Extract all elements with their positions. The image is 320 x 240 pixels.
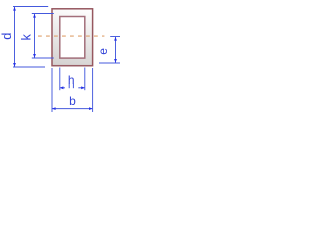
b left arrow bbox=[52, 107, 56, 110]
h dimension line left segment bbox=[60, 87, 65, 89]
d top arrow bbox=[13, 7, 16, 11]
outer rectangle bbox=[52, 9, 93, 66]
centerline bbox=[38, 35, 104, 37]
b dimension line bbox=[52, 108, 92, 110]
d dimension line bbox=[14, 7, 16, 67]
inner rectangle bbox=[60, 17, 85, 59]
e bottom arrow bbox=[114, 59, 117, 63]
k dimension line bbox=[34, 14, 36, 58]
h label riser left bbox=[68, 84, 70, 88]
outer bottom edge accent bbox=[53, 65, 93, 67]
e dimension line bbox=[115, 37, 117, 63]
h dimension line right segment bbox=[78, 87, 84, 89]
e top extension line bbox=[110, 36, 120, 38]
e bottom extension line bbox=[99, 62, 120, 64]
outer-right extension line bbox=[92, 68, 94, 112]
k bottom extension line bbox=[32, 57, 54, 59]
b right arrow bbox=[89, 107, 93, 110]
k top arrow bbox=[33, 14, 36, 18]
k bottom arrow bbox=[33, 54, 36, 58]
svg-text:h: h bbox=[68, 73, 75, 87]
d bottom extension line bbox=[13, 66, 45, 68]
d top extension line bbox=[13, 6, 48, 8]
svg-text:b: b bbox=[69, 94, 76, 108]
svg-text:k: k bbox=[20, 34, 34, 41]
h right arrow bbox=[81, 86, 85, 89]
k top extension line bbox=[32, 13, 54, 15]
e top arrow bbox=[114, 37, 117, 41]
svg-text:d: d bbox=[0, 33, 14, 40]
h label riser right bbox=[72, 84, 74, 88]
h left arrow bbox=[60, 86, 64, 89]
d bottom arrow bbox=[13, 63, 16, 67]
inner-right extension line bbox=[84, 68, 86, 91]
tube wall fill bbox=[52, 9, 93, 66]
inner-left extension line bbox=[59, 68, 61, 91]
outer-left extension line bbox=[51, 68, 53, 112]
svg-text:e: e bbox=[96, 48, 110, 55]
